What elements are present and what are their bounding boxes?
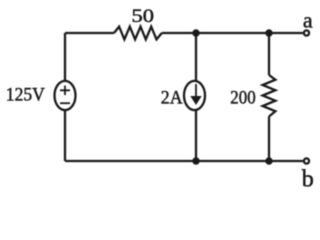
- junction top middle: [192, 29, 199, 36]
- wire bottom segment: [65, 160, 303, 162]
- wire middle vertical upper: [195, 33, 197, 81]
- wire right vertical lower: [268, 117, 270, 162]
- svg-text:200: 200: [230, 87, 255, 108]
- wire top segment to terminal a: [162, 32, 303, 34]
- svg-text:50: 50: [132, 6, 155, 27]
- svg-text:125V: 125V: [6, 85, 45, 106]
- junction bottom right: [265, 157, 272, 164]
- terminal a: [304, 30, 309, 35]
- svg-text:b: b: [302, 166, 314, 192]
- junction bottom middle: [192, 157, 199, 164]
- wire middle vertical lower: [195, 110, 197, 161]
- voltage source 125V: [55, 81, 76, 110]
- resistor 50: [114, 27, 162, 40]
- svg-text:a: a: [303, 7, 313, 32]
- wire left vertical upper: [64, 33, 66, 81]
- wire left vertical lower: [64, 110, 66, 161]
- junction top right: [265, 29, 272, 36]
- wire top-left segment: [65, 32, 114, 34]
- resistor 200: [263, 75, 276, 117]
- wire right vertical upper: [268, 33, 270, 75]
- terminal b: [304, 158, 309, 163]
- svg-text:2A: 2A: [161, 87, 183, 108]
- current source 2A: [184, 81, 205, 110]
